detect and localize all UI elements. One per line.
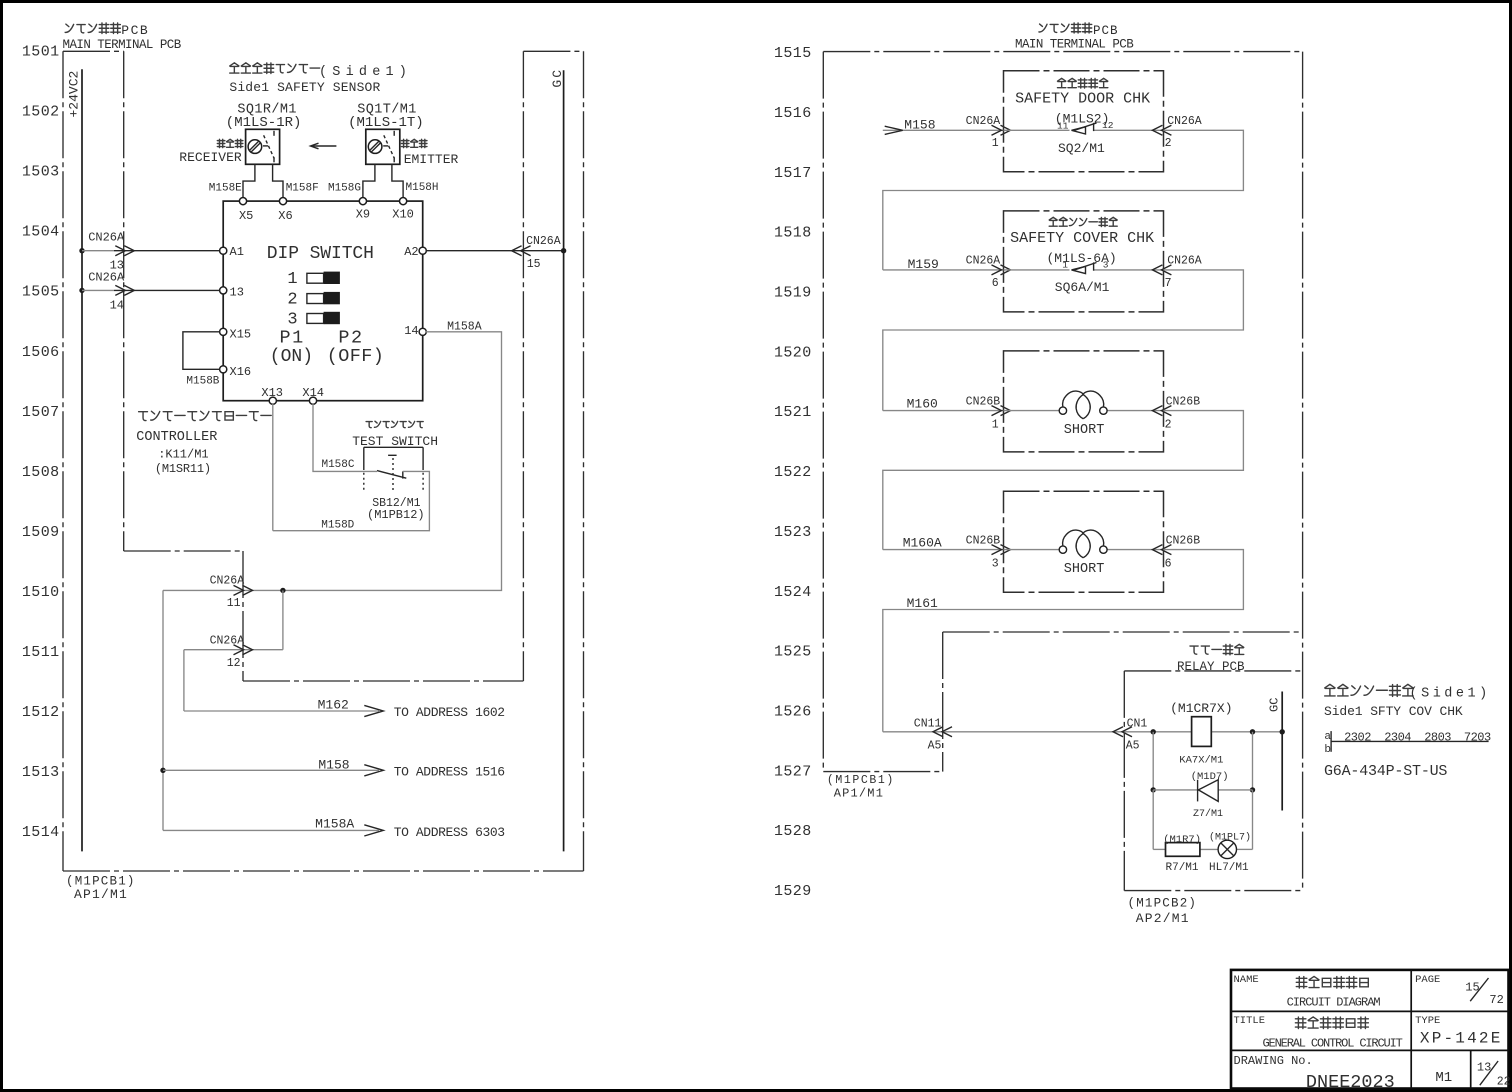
label 投光器 EMITTER	[401, 139, 409, 147]
diode Z7/M1 (M1D7)	[1198, 780, 1218, 802]
wire M158 to address 1516	[163, 769, 379, 771]
svg-text:(OFF): (OFF)	[327, 346, 385, 367]
svg-text:PCB: PCB	[121, 23, 149, 38]
svg-text:SQ6A/M1: SQ6A/M1	[1055, 280, 1110, 295]
PCB boundary M1PCB1 right half (dash-dot)	[823, 51, 1302, 53]
svg-text:M158B: M158B	[186, 375, 219, 387]
connector CN26B pin3	[992, 545, 1002, 555]
svg-text:3: 3	[1103, 260, 1109, 271]
svg-text:CN26A: CN26A	[210, 575, 245, 588]
svg-text:P1: P1	[280, 328, 305, 349]
svg-text:CN26A: CN26A	[1167, 115, 1202, 128]
svg-text:1525: 1525	[774, 644, 812, 661]
svg-text:CN26A: CN26A	[966, 255, 1001, 268]
svg-text:X13: X13	[261, 386, 283, 400]
svg-text:1514: 1514	[22, 824, 60, 841]
svg-text:6: 6	[992, 277, 999, 290]
svg-text:CN26A: CN26A	[210, 635, 245, 648]
svg-text:(Side1): (Side1)	[1410, 686, 1491, 701]
relay coil KA7X/M1	[1192, 717, 1212, 747]
svg-text:M158F: M158F	[286, 183, 319, 195]
svg-text:1512: 1512	[22, 704, 60, 721]
junction dot M158	[160, 768, 165, 773]
svg-text:CONTROLLER: CONTROLLER	[136, 430, 217, 445]
svg-text:(M1SR11): (M1SR11)	[155, 462, 211, 476]
svg-text:A5: A5	[928, 740, 942, 753]
svg-text:M1: M1	[1435, 1070, 1452, 1086]
svg-text:2803: 2803	[1424, 730, 1451, 744]
svg-text:1507: 1507	[22, 404, 60, 421]
svg-text:X5: X5	[239, 209, 253, 223]
svg-text:DRAWING No.: DRAWING No.	[1234, 1054, 1313, 1068]
label safety cover chk Side1	[1325, 684, 1335, 696]
connector CN26B pin2	[1152, 406, 1162, 416]
wire M158A to address 6303	[163, 829, 379, 831]
junction dot 11	[280, 588, 285, 593]
svg-text:SHORT: SHORT	[1064, 562, 1105, 577]
svg-text:1: 1	[992, 419, 999, 432]
svg-text:DIP SWITCH: DIP SWITCH	[267, 244, 374, 264]
svg-text:7203: 7203	[1464, 730, 1491, 744]
svg-text:1513: 1513	[22, 764, 60, 781]
svg-text:DNEE2023: DNEE2023	[1306, 1072, 1395, 1092]
svg-text:TO ADDRESS 1602: TO ADDRESS 1602	[394, 705, 505, 720]
wire +24VC2 vertical	[81, 69, 83, 851]
svg-text:11: 11	[1057, 120, 1069, 131]
svg-text:NAME: NAME	[1234, 974, 1259, 986]
svg-text:(M1CR7X): (M1CR7X)	[1170, 701, 1232, 716]
svg-text:1519: 1519	[774, 285, 812, 302]
svg-text:G6A-434P-ST-US: G6A-434P-ST-US	[1324, 763, 1447, 780]
svg-text:1502: 1502	[22, 104, 60, 121]
wire switch to M158D	[273, 471, 430, 530]
svg-text:PCB: PCB	[1093, 24, 1119, 38]
wire M162 to address 1602	[184, 710, 379, 712]
wire M160A	[883, 549, 1004, 551]
relay PCB box M1PCB2 (dash-dot)	[1123, 671, 1125, 891]
svg-text:A2: A2	[404, 245, 418, 259]
svg-text:CN26B: CN26B	[966, 534, 1001, 547]
wire vertical 12 to M162	[183, 650, 185, 711]
svg-text:1517: 1517	[774, 165, 812, 182]
title block frame	[1231, 970, 1509, 1089]
svg-text:(M1PL7): (M1PL7)	[1209, 832, 1251, 844]
box SHORT 2	[1004, 491, 1164, 592]
wire X13 down	[272, 404, 274, 531]
svg-text:EMITTER: EMITTER	[404, 152, 459, 167]
resistor R7/M1 (M1R7)	[1166, 843, 1200, 857]
wire loop 1521 to 1523	[883, 411, 1244, 550]
svg-text:1529: 1529	[774, 883, 812, 900]
wire diode row	[1153, 789, 1252, 791]
wire diode branch verticals	[1152, 732, 1154, 790]
wire M158A from terminal 14	[283, 332, 502, 591]
junction dot on +24VC2 at 1504	[79, 248, 84, 253]
svg-text:M158A: M158A	[315, 816, 354, 831]
svg-text:GC: GC	[550, 68, 565, 88]
connector CN26A pin1	[992, 125, 1002, 135]
limit switch contact SQ2 wire	[1004, 129, 1070, 131]
svg-text:M162: M162	[318, 697, 349, 712]
svg-text:PAGE: PAGE	[1415, 974, 1440, 986]
svg-text:2: 2	[1165, 419, 1172, 432]
svg-text:1526: 1526	[774, 704, 812, 721]
wire bus vertical to M158/M158A	[162, 590, 164, 830]
svg-text:13: 13	[230, 286, 244, 300]
terminal X14	[309, 397, 316, 404]
svg-text:+24VC2: +24VC2	[67, 71, 82, 118]
svg-text:1518: 1518	[774, 225, 812, 242]
svg-text:HL7/M1: HL7/M1	[1209, 862, 1249, 874]
PCB boundary M1PCB1 left half (dash-dot)	[63, 50, 124, 52]
svg-text:14: 14	[110, 298, 124, 312]
label sensor controller	[139, 412, 148, 421]
svg-text:CIRCUIT DIAGRAM: CIRCUIT DIAGRAM	[1287, 996, 1381, 1010]
svg-text:1522: 1522	[774, 464, 812, 481]
svg-text:TITLE: TITLE	[1234, 1015, 1266, 1027]
svg-text:TO ADDRESS 6303: TO ADDRESS 6303	[394, 825, 505, 840]
svg-text:12: 12	[227, 657, 241, 670]
svg-text:1: 1	[287, 270, 297, 289]
connector CN26B pin6	[1152, 545, 1162, 555]
junction dot on +24VC2 at 1505	[79, 288, 84, 293]
svg-text:1515: 1515	[774, 45, 812, 62]
wire CN26A-12	[184, 649, 283, 651]
wire jumper X15-X16 M158B	[183, 332, 220, 370]
wire M158 input arrow	[883, 129, 1004, 131]
wire 11-12 link vertical	[282, 590, 284, 649]
svg-text:M160A: M160A	[903, 536, 942, 551]
box SAFETY DOOR CHK SQ2/M1	[1004, 71, 1164, 172]
junction dot diode right	[1250, 787, 1255, 792]
connector CN11 A5	[933, 727, 943, 737]
svg-text:1504: 1504	[22, 224, 60, 241]
svg-text:CN26A: CN26A	[88, 270, 125, 284]
wire M160	[883, 410, 1004, 412]
svg-text:1527: 1527	[774, 763, 812, 780]
svg-text:CN26A: CN26A	[966, 115, 1001, 128]
svg-text:X16: X16	[230, 365, 252, 379]
svg-text:2: 2	[1165, 137, 1172, 150]
svg-text:CN26B: CN26B	[1166, 534, 1201, 547]
junction dot rail right	[1250, 729, 1255, 734]
wire loop 1519 to 1521	[883, 270, 1244, 411]
wire loop M161	[883, 550, 1244, 732]
limit switch contact SQ2	[1072, 127, 1086, 134]
svg-text:2: 2	[287, 291, 297, 310]
terminal 13	[220, 287, 227, 294]
svg-text:M160: M160	[907, 397, 938, 412]
svg-text:SHORT: SHORT	[1064, 423, 1105, 438]
svg-text:(M1R7): (M1R7)	[1163, 834, 1201, 846]
svg-text:22: 22	[1497, 1076, 1511, 1089]
svg-text:1520: 1520	[774, 344, 812, 361]
svg-text:1509: 1509	[22, 524, 60, 541]
lamp HL7/M1 (M1PL7)	[1218, 840, 1236, 858]
svg-text:KA7X/M1: KA7X/M1	[1179, 754, 1223, 766]
connector CN1 A5	[1113, 727, 1123, 737]
svg-text:1501: 1501	[22, 44, 60, 61]
short plug symbol 2 wires	[1004, 549, 1060, 551]
svg-text:1516: 1516	[774, 105, 812, 122]
connector CN26A pin7	[1152, 265, 1162, 275]
svg-text:GC: GC	[1268, 698, 1282, 712]
wire X14 down to M158C	[313, 404, 377, 472]
wire M159	[883, 269, 1004, 271]
svg-text:X6: X6	[278, 209, 292, 223]
svg-text:M158: M158	[318, 757, 349, 772]
svg-text:CN26A: CN26A	[526, 235, 561, 248]
limit switch contact SQ6A	[1072, 266, 1086, 273]
svg-text:M158D: M158D	[321, 519, 354, 531]
svg-text:AP1/M1: AP1/M1	[834, 787, 884, 801]
connector CN26A pin2	[1152, 125, 1162, 135]
wire A2 to GC with CN26A-15	[426, 250, 564, 252]
svg-text:SAFETY COVER CHK: SAFETY COVER CHK	[1010, 230, 1154, 247]
wire CN26A-13 to A1	[82, 250, 114, 252]
svg-text:AP2/M1: AP2/M1	[1136, 911, 1190, 926]
label 受光器 RECEIVER	[217, 139, 225, 147]
label main terminal PCB right	[1039, 24, 1047, 32]
wire M161 to relay CN1	[883, 731, 1125, 733]
short plug symbol 1 wires	[1004, 410, 1060, 412]
svg-text:72: 72	[1489, 993, 1503, 1007]
svg-text:1505: 1505	[22, 284, 60, 301]
svg-text:RECEIVER: RECEIVER	[179, 150, 242, 165]
svg-text:1503: 1503	[22, 164, 60, 181]
terminal X5	[239, 198, 246, 205]
svg-text:MAIN TERMINAL PCB: MAIN TERMINAL PCB	[63, 38, 182, 52]
svg-text:1523: 1523	[774, 524, 812, 541]
svg-text:(Side1): (Side1)	[319, 65, 412, 80]
svg-text:1: 1	[992, 137, 999, 150]
svg-text:14: 14	[404, 324, 418, 338]
svg-text:M158E: M158E	[209, 183, 242, 195]
wire CN26A-14 to 13	[82, 289, 114, 291]
svg-text:TYPE: TYPE	[1415, 1015, 1440, 1027]
terminal X13	[269, 397, 276, 404]
svg-text:1510: 1510	[22, 584, 60, 601]
wire GC vertical left half	[563, 70, 565, 851]
wire CN26A-11	[163, 589, 283, 591]
box SAFETY COVER CHK SQ6A/M1	[1004, 211, 1164, 312]
svg-text:2302: 2302	[1344, 730, 1371, 744]
svg-text:1511: 1511	[22, 644, 60, 661]
wire receiver to X5	[243, 164, 255, 198]
wire resistor-lamp branch	[1152, 790, 1154, 850]
svg-text:a: a	[1324, 731, 1331, 743]
svg-text:1524: 1524	[774, 584, 812, 601]
svg-text:3: 3	[992, 558, 999, 571]
svg-text:15: 15	[527, 258, 541, 271]
svg-text:MAIN TERMINAL PCB: MAIN TERMINAL PCB	[1015, 37, 1134, 51]
terminal A1	[220, 247, 227, 254]
svg-text:M158G: M158G	[328, 183, 361, 195]
svg-text::K11/M1: :K11/M1	[158, 448, 208, 462]
box SHORT 1	[1004, 351, 1164, 452]
svg-text:X14: X14	[302, 386, 324, 400]
svg-text:1521: 1521	[774, 404, 812, 421]
svg-text:X10: X10	[392, 208, 414, 222]
svg-text:M158: M158	[904, 117, 935, 132]
svg-text:7: 7	[1165, 277, 1172, 290]
svg-text:M158A: M158A	[447, 321, 482, 334]
wire emitter to X9	[363, 164, 375, 198]
light beam arrow	[312, 145, 337, 147]
wire emitter to X10	[392, 164, 403, 198]
svg-text:6: 6	[1165, 558, 1172, 571]
svg-text:RELAY PCB: RELAY PCB	[1177, 660, 1245, 674]
svg-text:CN11: CN11	[914, 718, 942, 731]
label safety sensor Side1	[230, 63, 239, 73]
svg-text:SAFETY DOOR CHK: SAFETY DOOR CHK	[1015, 91, 1150, 108]
svg-text:b: b	[1324, 744, 1331, 756]
short plug symbol 1	[1059, 407, 1066, 414]
svg-text:M158H: M158H	[406, 182, 439, 194]
wire relay rail	[1124, 731, 1191, 733]
terminal X10	[400, 198, 407, 205]
wire loop 1516 to 1518	[883, 130, 1244, 270]
junction dot at GC	[1280, 729, 1285, 734]
svg-text:CN1: CN1	[1127, 718, 1148, 731]
short plug symbol 2	[1059, 546, 1066, 553]
svg-text:(M1PCB1): (M1PCB1)	[827, 774, 895, 787]
label relay PCB	[1190, 646, 1198, 654]
label test switch	[366, 422, 372, 428]
svg-text:X15: X15	[230, 327, 252, 341]
GC line relay	[1281, 692, 1283, 811]
svg-text:XP-142E: XP-142E	[1420, 1030, 1503, 1048]
limit switch contact SQ6A wire	[1004, 269, 1070, 271]
wire receiver to X6	[273, 164, 283, 198]
svg-text:2304: 2304	[1384, 730, 1411, 744]
svg-text:1508: 1508	[22, 464, 60, 481]
terminal X16	[220, 366, 227, 373]
switch blade SB12	[377, 471, 406, 479]
svg-text:M161: M161	[907, 596, 938, 611]
svg-text:CN26B: CN26B	[1166, 395, 1201, 408]
svg-text:M159: M159	[908, 257, 939, 272]
terminal X9	[359, 198, 366, 205]
svg-text:Side1 SFTY COV CHK: Side1 SFTY COV CHK	[1324, 704, 1463, 719]
sensor controller box K11/M1	[223, 201, 423, 401]
terminal A2	[419, 247, 426, 254]
connector CN26B pin1	[992, 406, 1002, 416]
test switch box SB12/M1	[364, 446, 423, 448]
label main terminal PCB left	[65, 24, 74, 32]
svg-text:(ON): (ON)	[270, 347, 313, 367]
svg-text:1528: 1528	[774, 823, 812, 840]
photo sensor SQ1R receiver box	[246, 129, 280, 164]
svg-text:TO ADDRESS 1516: TO ADDRESS 1516	[394, 765, 505, 780]
photo sensor SQ1T emitter box	[366, 129, 400, 164]
svg-text:M158C: M158C	[321, 459, 354, 471]
junction dot rail left	[1151, 729, 1156, 734]
svg-text:CN26A: CN26A	[1167, 255, 1202, 268]
svg-text:CN26A: CN26A	[88, 231, 125, 245]
terminal X15	[220, 328, 227, 335]
connector CN26A pin6	[992, 265, 1002, 275]
svg-text:Side1 SAFETY SENSOR: Side1 SAFETY SENSOR	[229, 80, 380, 95]
junction dot diode left	[1151, 787, 1156, 792]
svg-text:CN26B: CN26B	[966, 395, 1001, 408]
svg-text:GENERAL CONTROL CIRCUIT: GENERAL CONTROL CIRCUIT	[1263, 1036, 1403, 1050]
svg-text:AP1/M1: AP1/M1	[74, 887, 128, 902]
svg-text:(M1PCB2): (M1PCB2)	[1128, 897, 1198, 911]
svg-text:11: 11	[227, 597, 241, 610]
svg-text:1506: 1506	[22, 344, 60, 361]
svg-text:12: 12	[1102, 120, 1114, 131]
svg-text:X9: X9	[356, 208, 370, 222]
svg-text:SQ2/M1: SQ2/M1	[1058, 141, 1105, 156]
terminal 14	[419, 328, 426, 335]
svg-text:(M1D7): (M1D7)	[1191, 771, 1229, 783]
svg-text:A1: A1	[230, 245, 244, 259]
svg-text:(M1PB12): (M1PB12)	[367, 508, 425, 522]
svg-text:Z7/M1: Z7/M1	[1193, 808, 1223, 820]
svg-text:R7/M1: R7/M1	[1166, 862, 1199, 874]
terminal X6	[279, 198, 286, 205]
svg-text:1: 1	[1062, 260, 1068, 271]
svg-text:A5: A5	[1126, 740, 1140, 753]
